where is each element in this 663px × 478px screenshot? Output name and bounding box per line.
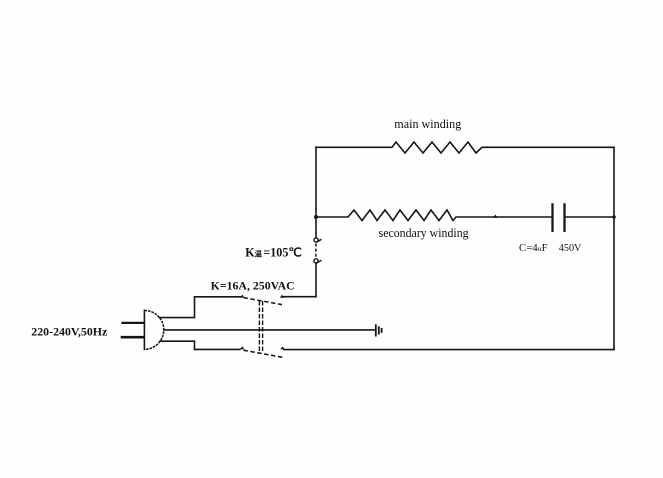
svg-text:220-240V,50Hz: 220-240V,50Hz bbox=[31, 324, 108, 338]
svg-text:K温 =105℃: K温 =105℃ bbox=[245, 246, 302, 260]
svg-text:K=16A, 250VAC: K=16A, 250VAC bbox=[211, 280, 295, 293]
svg-text:C=4uF: C=4uF bbox=[519, 242, 548, 254]
svg-text:450V: 450V bbox=[559, 242, 582, 254]
svg-text:secondary winding: secondary winding bbox=[379, 226, 469, 240]
svg-text:main winding: main winding bbox=[394, 117, 461, 131]
